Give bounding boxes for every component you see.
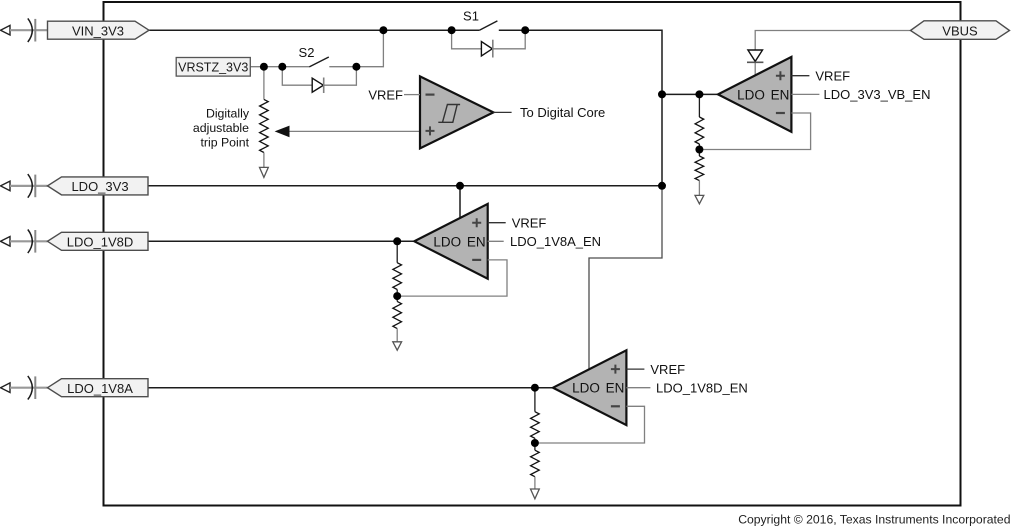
wire LDO3 input node to divider (534, 388, 536, 412)
wire divider to ground arrow LDO2 (396, 329, 398, 342)
svg-text:VREF: VREF (368, 87, 403, 102)
svg-text:LDO: LDO (433, 234, 461, 249)
ground arrow LDO1 divider (695, 195, 704, 203)
wire node column lower jog to LDO3 input (589, 186, 662, 370)
off-page connector symbol LDO_1V8A (1, 383, 11, 393)
resistor R divider top (LDO3) (531, 412, 540, 439)
svg-text:Copyright © 2016, Texas Instru: Copyright © 2016, Texas Instruments Inco… (738, 513, 1010, 526)
svg-text:LDO_3V3: LDO_3V3 (71, 179, 128, 194)
hysteresis symbol (438, 105, 460, 123)
wire LDO2 VREF pin (488, 222, 506, 224)
wire VRSTZ_3V3 to S2 (250, 66, 309, 68)
junction LDO_3V3/LDO2 riser (456, 182, 464, 190)
comparator minus pin mark (426, 93, 435, 95)
junction node column LDO1 input (658, 90, 666, 98)
junction LDO2 divider mid (393, 292, 401, 300)
wire LDO3 VREF pin (626, 368, 644, 370)
off-page connector symbol VIN_3V3 (1, 25, 11, 35)
svg-text:To Digital Core: To Digital Core (520, 105, 605, 120)
junction S1 left (448, 26, 456, 34)
port VIN_3V3 (48, 21, 150, 39)
junction LDO3 divider mid (531, 439, 539, 447)
svg-text:Digitally: Digitally (206, 107, 250, 121)
junction LDO2 input divider (393, 237, 401, 245)
wire S2 diode branch left (282, 67, 312, 86)
resistor R divider bottom (LDO3) (531, 450, 540, 477)
port LDO_1V8D (48, 232, 149, 250)
LDO1 minus pin mark (776, 112, 785, 114)
ground arrow LDO3 divider (531, 489, 540, 499)
wire LDO1 feedback loop (699, 113, 810, 150)
comparator plus pin mark (426, 126, 435, 135)
svg-text:adjustable: adjustable (193, 121, 249, 135)
diode D1 from VBUS (triangle) (748, 50, 763, 61)
op-amp LDO1 body (718, 57, 791, 132)
svg-text:VIN_3V3: VIN_3V3 (72, 23, 124, 38)
wire comparator output (493, 111, 511, 113)
diode across S2 (cathode bar) (323, 78, 325, 94)
wire LDO2 feedback loop (397, 260, 507, 296)
svg-text:S2: S2 (299, 45, 315, 60)
wire VIN_3V3 rail right of S1 and drop to node column (499, 30, 662, 186)
ground arrow under trip resistor (260, 167, 269, 177)
junction S2 diode right (352, 63, 360, 71)
wire between divider resistors LDO1 (698, 144, 700, 156)
svg-text:LDO: LDO (572, 381, 600, 396)
wire S2 diode branch right (324, 67, 357, 86)
svg-text:LDO_1V8A_EN: LDO_1V8A_EN (510, 234, 601, 249)
junction LDO3 input divider (531, 384, 539, 392)
port VBUS (911, 21, 1010, 40)
port LDO_1V8A (48, 379, 149, 397)
svg-text:VBUS: VBUS (942, 24, 978, 39)
wire LDO_3V3 line down to LDO2 top edge (459, 186, 461, 218)
diode across S2 (triangle) (312, 78, 323, 92)
svg-text:EN: EN (606, 381, 625, 396)
wire LDO2 input node to divider (396, 241, 398, 262)
svg-text:VREF: VREF (650, 362, 685, 377)
wire LDO3 EN pin (626, 387, 650, 389)
wire S1 diode branch right (493, 30, 525, 49)
switch S2 blade (309, 57, 329, 67)
junction LDO1 divider top (695, 90, 703, 98)
op-amp LDO3 body (553, 350, 626, 425)
wire between divider resistors LDO2 (396, 290, 398, 302)
wire VRSTZ node down to trip resistor (263, 67, 265, 100)
wire LDO3 feedback loop (535, 406, 645, 443)
LDO1 plus pin mark (776, 71, 785, 80)
svg-text:VRSTZ_3V3: VRSTZ_3V3 (178, 60, 248, 74)
resistor R divider bottom (LDO2) (393, 301, 402, 328)
ground arrow LDO2 divider (393, 342, 402, 350)
wire VREF to comparator minus (404, 94, 420, 96)
LDO3 plus pin mark (611, 365, 620, 374)
junction VIN/S2 riser (379, 26, 387, 34)
wire node column to LDO1 tip (662, 93, 718, 95)
off-page connector symbol LDO_3V3 (1, 181, 11, 191)
wire LDO_3V3 line (148, 185, 662, 187)
op-amp LDO2 body (414, 204, 487, 279)
svg-text:LDO_1V8D: LDO_1V8D (67, 234, 133, 249)
junction VRSTZ/trip resistor (260, 63, 268, 71)
resistor R divider top (LDO1) (695, 117, 704, 144)
wire S2 right side up to VIN rail (329, 30, 383, 66)
svg-text:trip Point: trip Point (200, 135, 249, 149)
junction LDO_3V3/node column (658, 182, 666, 190)
wire divider to ground arrow LDO3 (534, 477, 536, 489)
wire comparator plus input to trip point arrow (288, 130, 420, 132)
svg-text:LDO_1V8D_EN: LDO_1V8D_EN (656, 380, 748, 395)
diode D1 cathode bar (747, 61, 763, 63)
comparator U1 body (420, 76, 493, 148)
wire divider to ground arrow LDO1 (698, 181, 700, 196)
resistor R divider top (LDO2) (393, 263, 402, 290)
wire LDO1 EN pin (791, 93, 819, 95)
arrowhead at trip point (275, 126, 290, 138)
wire LDO_1V8A line (148, 387, 553, 389)
svg-text:LDO: LDO (737, 87, 765, 102)
wire trip resistor to ground arrow (263, 153, 265, 168)
svg-text:EN: EN (467, 234, 486, 249)
svg-text:LDO_1V8A: LDO_1V8A (67, 381, 133, 396)
wire diode cathode to LDO1 top edge (754, 62, 756, 76)
diode across S1 (triangle) (481, 42, 492, 56)
LDO2 plus pin mark (472, 218, 481, 227)
node VRSTZ_3V3 (176, 58, 250, 77)
resistor R divider bottom (LDO1) (695, 156, 704, 181)
svg-text:VREF: VREF (815, 68, 850, 83)
resistor digitally adjustable trip point (260, 99, 269, 152)
junction S1 right (521, 26, 529, 34)
LDO3 minus pin mark (611, 405, 620, 407)
wire VIN_3V3 rail left of S1 (149, 29, 479, 31)
port LDO_3V3 (48, 177, 149, 195)
wire LDO_1V8D line (148, 240, 414, 242)
svg-text:LDO_3V3_VB_EN: LDO_3V3_VB_EN (824, 87, 931, 102)
svg-text:S1: S1 (463, 9, 479, 24)
diode across S1 (cathode bar) (492, 40, 494, 58)
switch S1 blade (479, 21, 497, 30)
svg-text:EN: EN (771, 87, 790, 102)
off-page connector symbol LDO_1V8D (1, 237, 11, 247)
wire VBUS to diode (755, 31, 910, 51)
junction S2 diode left (278, 63, 286, 71)
wire LDO1 VREF pin (791, 75, 809, 77)
LDO2 minus pin mark (472, 259, 481, 261)
wire LDO1 input node to divider (698, 94, 700, 117)
wire LDO2 EN pin (488, 240, 504, 242)
wire S1 diode branch (452, 30, 481, 49)
wire between divider resistors LDO3 (534, 438, 536, 450)
junction LDO1 divider mid (695, 146, 703, 154)
svg-text:VREF: VREF (512, 215, 547, 230)
